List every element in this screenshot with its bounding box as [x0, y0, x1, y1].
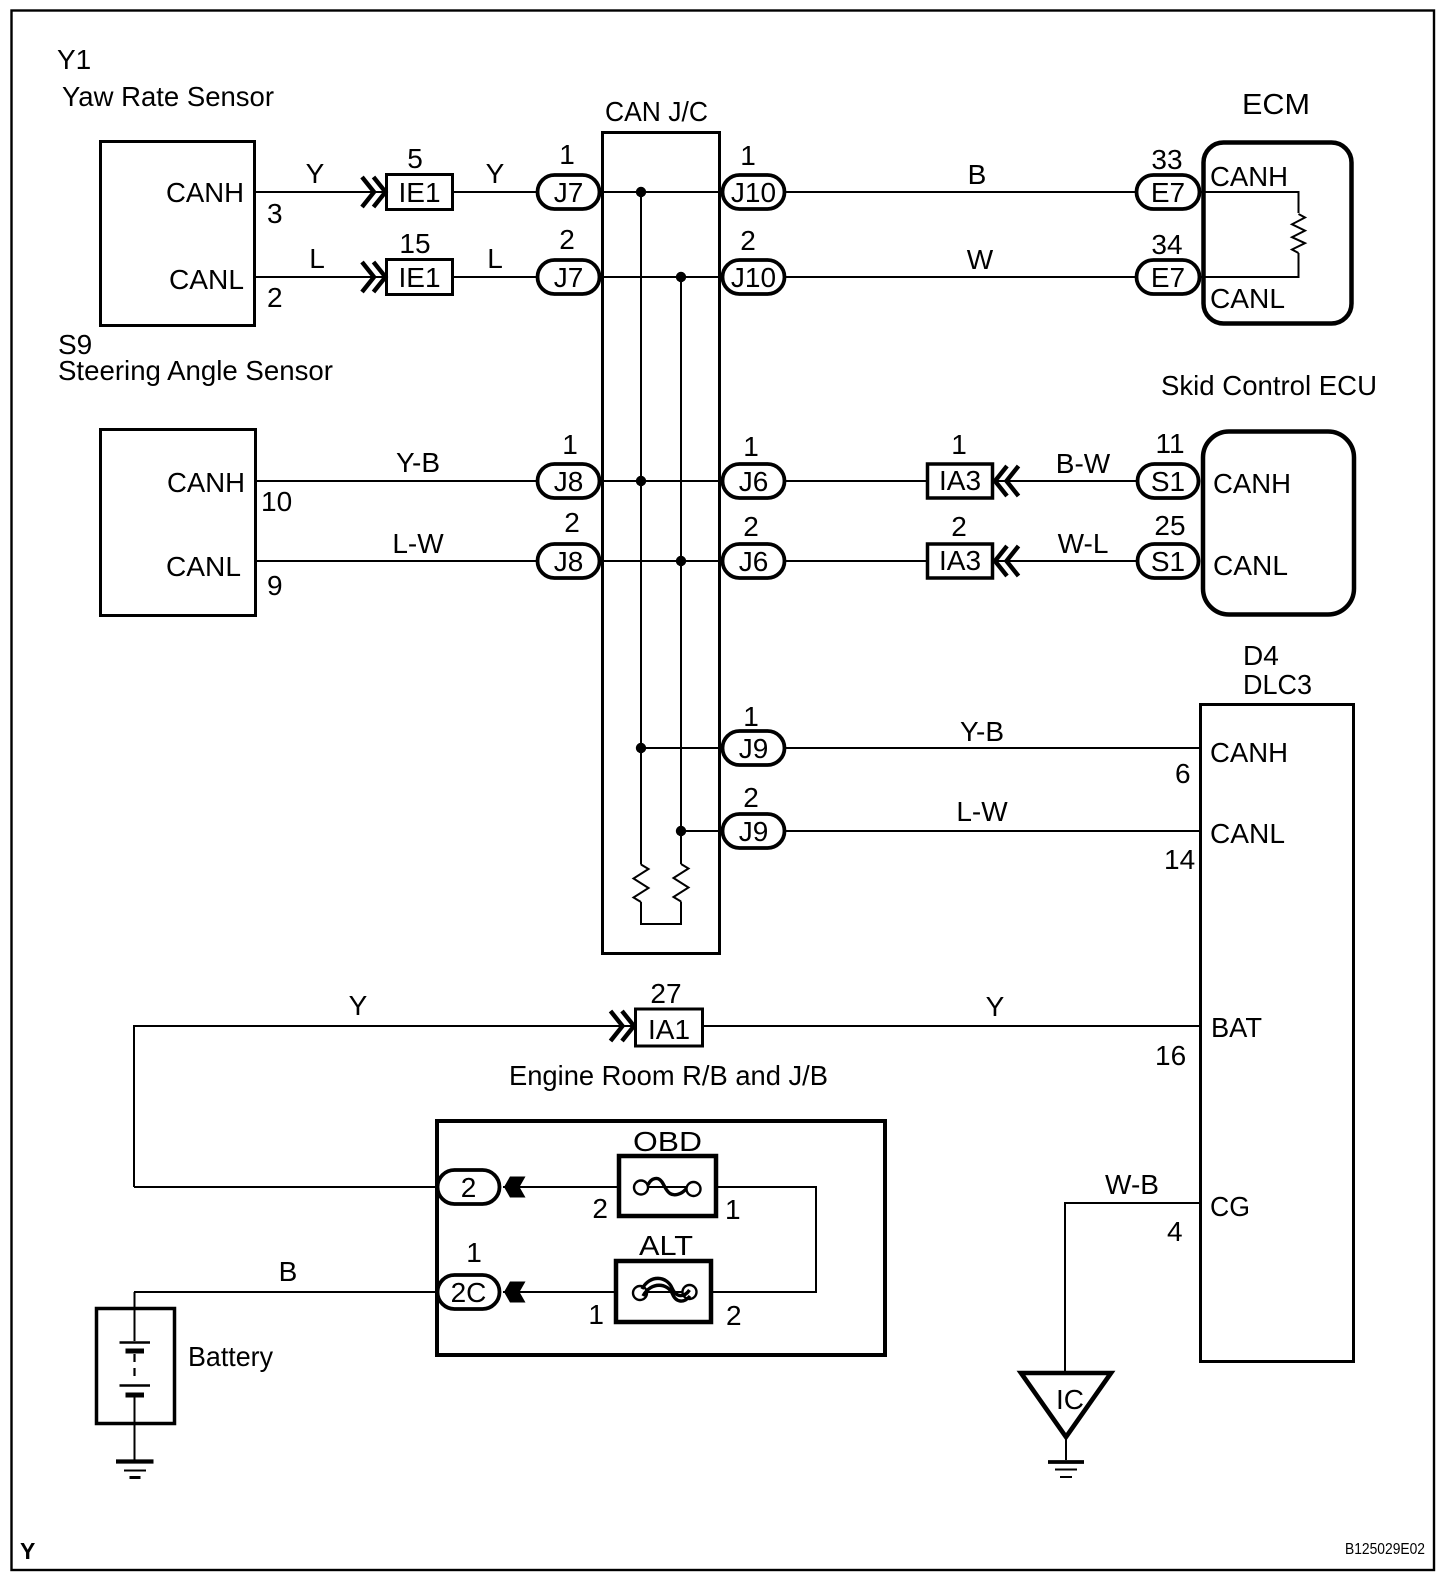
- svg-text:CANH: CANH: [1213, 468, 1291, 499]
- ground IC bar 2: [1055, 1469, 1077, 1471]
- connector S1 pin 25 oval: [1138, 544, 1199, 578]
- component D4 DLC3 box: [1201, 705, 1354, 1362]
- svg-text:DLC3: DLC3: [1243, 669, 1312, 700]
- svg-text:Engine Room R/B and J/B: Engine Room R/B and J/B: [509, 1060, 828, 1091]
- wire IC to ground: [1065, 1437, 1067, 1460]
- fuse OBD right terminal circle: [687, 1182, 701, 1196]
- wire S9 CANL to J8 pin2: [256, 560, 539, 562]
- connector J9 pin 1 oval: [723, 731, 785, 765]
- junction dot row2 bus2: [676, 272, 686, 282]
- svg-text:CANH: CANH: [167, 467, 245, 498]
- connector J10 pin 1 oval: [723, 175, 785, 209]
- connector J6 pin 1 oval: [723, 464, 785, 498]
- junction arrows into IE1 (row 2): [362, 262, 386, 292]
- ground battery bar 3: [130, 1476, 141, 1479]
- svg-text:CANH: CANH: [1210, 161, 1288, 192]
- svg-text:L-W: L-W: [956, 796, 1008, 827]
- svg-text:10: 10: [261, 486, 292, 517]
- svg-text:ALT: ALT: [639, 1230, 693, 1261]
- svg-text:1: 1: [725, 1194, 741, 1225]
- svg-text:CANL: CANL: [169, 264, 244, 295]
- svg-text:1: 1: [559, 139, 575, 170]
- wire CAN J/C internal row5: [641, 747, 723, 749]
- svg-text:Y: Y: [986, 991, 1005, 1022]
- fusible link ALT element double wave: [642, 1278, 690, 1295]
- connector IA1: [636, 1009, 703, 1046]
- component CAN J/C junction block box: [603, 133, 720, 954]
- wire IE1 to J7 pin1: [454, 191, 538, 193]
- svg-text:BAT: BAT: [1211, 1012, 1262, 1043]
- fuse OBD element wire through: [648, 1186, 687, 1188]
- ground IC bar 1: [1048, 1460, 1084, 1464]
- svg-text:J7: J7: [554, 262, 584, 293]
- wire to connector 2: [134, 1186, 437, 1188]
- svg-text:J6: J6: [739, 466, 769, 497]
- component Battery box: [97, 1309, 175, 1424]
- connector IA3 (row 1): [928, 464, 993, 498]
- arrow into connector 2C: [504, 1282, 526, 1303]
- svg-text:B125029E02: B125029E02: [1345, 1541, 1425, 1558]
- connector J9 pin 2 oval: [723, 814, 785, 848]
- svg-text:11: 11: [1155, 428, 1184, 459]
- component ECM box: [1204, 143, 1352, 324]
- battery cell plate short 1: [126, 1349, 145, 1354]
- svg-text:Steering Angle Sensor: Steering Angle Sensor: [58, 355, 333, 386]
- svg-text:2: 2: [267, 282, 283, 313]
- svg-text:IC: IC: [1056, 1384, 1084, 1415]
- svg-text:16: 16: [1155, 1040, 1186, 1071]
- svg-text:33: 33: [1151, 144, 1182, 175]
- wire ECM internal CANH to resistor: [1201, 192, 1299, 213]
- wire J10 pin2 to E7 (W): [786, 276, 1136, 278]
- wire J6 pin2 to IA3: [786, 560, 927, 562]
- svg-text:L: L: [487, 243, 503, 274]
- junction dot row5 bus1: [636, 743, 646, 753]
- svg-text:2: 2: [951, 511, 967, 542]
- svg-text:W-B: W-B: [1105, 1169, 1159, 1200]
- wire CAN J/C internal row1: [600, 191, 723, 193]
- svg-text:J9: J9: [739, 733, 769, 764]
- fuse OBD box: [619, 1156, 716, 1216]
- component Y1 Yaw Rate Sensor box: [101, 142, 255, 326]
- svg-text:Y-B: Y-B: [960, 716, 1004, 747]
- svg-text:34: 34: [1151, 229, 1182, 260]
- svg-text:3: 3: [267, 198, 283, 229]
- connector S1 pin 11 oval: [1138, 464, 1199, 498]
- svg-text:1: 1: [743, 431, 759, 462]
- svg-text:B: B: [279, 1256, 298, 1287]
- svg-text:Y: Y: [20, 1538, 35, 1564]
- connector IE1 (row 2): [387, 260, 453, 295]
- wire J9 pin2 to DLC3 CANL (L-W): [786, 830, 1199, 832]
- svg-text:CANL: CANL: [1210, 283, 1285, 314]
- svg-text:B-W: B-W: [1056, 448, 1111, 479]
- fuse OBD left terminal circle: [634, 1181, 648, 1195]
- svg-text:CANL: CANL: [1210, 818, 1285, 849]
- svg-text:CANH: CANH: [1210, 737, 1288, 768]
- fuse ALT box: [616, 1261, 711, 1322]
- connector E7 pin 34 oval: [1137, 260, 1200, 294]
- svg-text:1: 1: [951, 429, 967, 460]
- battery internal dashed link: [133, 1354, 135, 1381]
- svg-text:Y: Y: [306, 158, 325, 189]
- svg-text:CANH: CANH: [166, 177, 244, 208]
- svg-text:B: B: [968, 159, 987, 190]
- svg-text:6: 6: [1175, 758, 1191, 789]
- wire OBD pin1 to ALT pin2: [711, 1187, 816, 1292]
- wire CAN J/C internal row3: [600, 480, 723, 482]
- svg-text:J6: J6: [739, 546, 769, 577]
- component Engine Room R/B and J/B box: [437, 1121, 885, 1355]
- wire battery positive lead: [134, 1292, 136, 1341]
- wire battery B to connector 2C: [134, 1291, 437, 1293]
- svg-text:2: 2: [726, 1300, 742, 1331]
- connector J7 pin 2 oval: [538, 260, 600, 294]
- connector J7 pin 1 oval: [538, 175, 600, 209]
- svg-text:IE1: IE1: [398, 177, 440, 208]
- wire Y1 CANH to IE1: [256, 191, 385, 193]
- svg-text:2: 2: [740, 225, 756, 256]
- svg-text:CAN J/C: CAN J/C: [605, 96, 708, 127]
- svg-text:1: 1: [466, 1237, 482, 1268]
- svg-text:CANL: CANL: [1213, 550, 1288, 581]
- ground battery bar 1: [116, 1459, 154, 1463]
- svg-text:4: 4: [1167, 1216, 1183, 1247]
- wire ECM internal resistor to CANL: [1201, 253, 1299, 277]
- svg-text:2: 2: [461, 1172, 477, 1203]
- svg-text:W-L: W-L: [1058, 528, 1109, 559]
- wire J6 pin1 to IA3: [786, 480, 927, 482]
- connector J6 pin 2 oval: [723, 544, 785, 578]
- svg-text:27: 27: [650, 978, 681, 1009]
- wire IA3 to S1 pin11 (B-W): [994, 480, 1137, 482]
- svg-text:CG: CG: [1210, 1191, 1250, 1222]
- ground IC bar 3: [1060, 1476, 1072, 1478]
- wire IE1 to J7 pin2: [454, 276, 538, 278]
- svg-text:Y1: Y1: [57, 44, 91, 75]
- wire DLC3 CG to IC (W-B): [1065, 1203, 1199, 1373]
- svg-text:1: 1: [562, 429, 578, 460]
- junction dot row6 bus2: [676, 826, 686, 836]
- wire CAN J/C internal row6: [681, 830, 723, 832]
- junction dot row3 bus1: [636, 476, 646, 486]
- svg-text:ECM: ECM: [1242, 89, 1310, 121]
- svg-text:IE1: IE1: [398, 262, 440, 293]
- svg-text:S1: S1: [1151, 466, 1185, 497]
- svg-text:J7: J7: [554, 177, 584, 208]
- wire IA1 to DLC3 BAT (Y): [704, 1025, 1199, 1027]
- battery cell plate short 2: [126, 1393, 145, 1398]
- svg-text:Y-B: Y-B: [396, 447, 440, 478]
- resistor CAN J/C bus1 terminating: [634, 865, 649, 903]
- svg-text:9: 9: [267, 570, 283, 601]
- svg-text:J8: J8: [554, 466, 584, 497]
- svg-text:Y: Y: [349, 990, 368, 1021]
- wire CAN J/C internal row2: [600, 276, 723, 278]
- svg-text:1: 1: [588, 1299, 604, 1330]
- junction dot row4 bus2: [676, 556, 686, 566]
- svg-text:J9: J9: [739, 816, 769, 847]
- wire IA3 to S1 pin25 (W-L): [994, 560, 1137, 562]
- svg-text:15: 15: [399, 228, 430, 259]
- svg-text:5: 5: [407, 143, 423, 174]
- svg-text:2: 2: [743, 511, 759, 542]
- svg-text:E7: E7: [1151, 262, 1185, 293]
- battery cell plate long 1: [120, 1341, 151, 1344]
- ground battery bar 2: [124, 1470, 146, 1472]
- svg-text:CANL: CANL: [166, 551, 241, 582]
- svg-text:2: 2: [592, 1193, 608, 1224]
- arrow into connector 2: [504, 1177, 526, 1198]
- wire CAN J/C internal row4: [600, 560, 723, 562]
- svg-text:1: 1: [743, 701, 759, 732]
- svg-text:25: 25: [1154, 510, 1185, 541]
- junction arrows into IE1 (row 1): [362, 177, 386, 207]
- connector J8 pin 2 oval: [538, 544, 600, 578]
- connector IE1 (row 1): [387, 175, 453, 210]
- connector IA3 (row 2): [928, 544, 993, 578]
- svg-text:E7: E7: [1151, 177, 1185, 208]
- svg-text:2: 2: [559, 224, 575, 255]
- wire connector 2 to OBD fuse: [503, 1186, 618, 1188]
- connector J8 pin 1 oval: [538, 464, 600, 498]
- wire bus2 vertical: [680, 277, 682, 864]
- svg-text:2: 2: [564, 507, 580, 538]
- wire bus1 vertical: [640, 192, 642, 865]
- battery cell plate long 2: [120, 1384, 151, 1387]
- svg-text:14: 14: [1164, 844, 1195, 875]
- wire J10 pin1 to E7 (B): [786, 191, 1136, 193]
- svg-text:OBD: OBD: [633, 1126, 702, 1157]
- wire resistor bottoms join: [641, 902, 681, 925]
- junction arrows into IA3 (row 1): [995, 466, 1019, 496]
- svg-text:IA3: IA3: [939, 545, 981, 576]
- svg-text:2C: 2C: [451, 1277, 487, 1308]
- svg-text:Y: Y: [486, 158, 505, 189]
- svg-text:L: L: [309, 243, 325, 274]
- junction arrows into IA3 (row 2): [995, 546, 1019, 576]
- connector 2C oval: [438, 1275, 500, 1309]
- resistor ECM terminating: [1292, 214, 1305, 253]
- svg-text:J8: J8: [554, 546, 584, 577]
- fuse ALT right terminal circle: [683, 1285, 697, 1299]
- svg-text:Yaw Rate Sensor: Yaw Rate Sensor: [62, 81, 274, 112]
- junction dot row1 bus1: [636, 187, 646, 197]
- svg-text:J10: J10: [731, 177, 776, 208]
- svg-text:J10: J10: [731, 262, 776, 293]
- wire S9 CANH to J8 pin1: [256, 480, 539, 482]
- wire J9 pin1 to DLC3 CANH (Y-B): [786, 747, 1199, 749]
- ground IC triangle: [1021, 1373, 1111, 1437]
- svg-text:IA1: IA1: [648, 1014, 690, 1045]
- connector 2 oval: [438, 1170, 500, 1204]
- resistor CAN J/C bus2 terminating: [674, 864, 689, 902]
- svg-text:D4: D4: [1243, 640, 1279, 671]
- svg-text:W: W: [967, 244, 994, 275]
- junction arrows into IA1: [611, 1011, 635, 1041]
- connector E7 pin 33 oval: [1137, 175, 1200, 209]
- fuse ALT left terminal circle: [633, 1286, 647, 1300]
- fuse ALT element wire through: [647, 1291, 683, 1293]
- wire battery feed left vertical: [134, 1026, 634, 1187]
- connector J10 pin 2 oval: [723, 260, 785, 294]
- svg-text:S1: S1: [1151, 546, 1185, 577]
- wire connector 2C to ALT fuse: [503, 1291, 615, 1293]
- svg-text:2: 2: [743, 782, 759, 813]
- svg-text:1: 1: [740, 140, 756, 171]
- component S9 Steering Angle Sensor box: [101, 430, 256, 616]
- svg-text:IA3: IA3: [939, 465, 981, 496]
- svg-text:Skid Control ECU: Skid Control ECU: [1161, 370, 1377, 401]
- wire battery negative lead: [134, 1397, 136, 1460]
- svg-text:L-W: L-W: [392, 528, 444, 559]
- svg-text:Battery: Battery: [188, 1341, 273, 1372]
- component Skid Control ECU box: [1203, 432, 1354, 615]
- fuse OBD element wave: [648, 1178, 687, 1194]
- wire Y1 CANL to IE1: [256, 276, 385, 278]
